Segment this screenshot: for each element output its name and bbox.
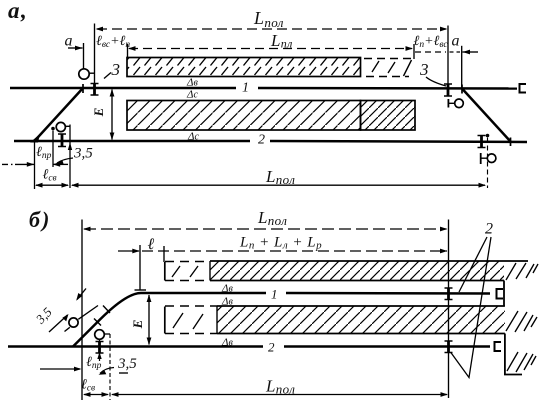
rotated dim 3,5 (fig b) — [32, 289, 98, 333]
notch vertical x=504 lower + bottom edge (fig b) — [505, 334, 522, 375]
svg-text:a: a — [452, 33, 460, 50]
loose hatch right of notch top (fig b) — [506, 263, 538, 280]
dim E (fig b) — [130, 295, 151, 346]
limit post dot (fig a right) — [486, 134, 490, 138]
svg-text:2: 2 — [258, 133, 265, 148]
middle band solid part (fig b) — [217, 306, 505, 334]
extension line x=110 (fig b) — [109, 334, 111, 400]
svg-text:ℓвс+ℓп: ℓвс+ℓп — [96, 34, 130, 50]
leader curve 3,5 (fig a) — [57, 158, 73, 163]
insulating joint track1 right (fig b) — [445, 288, 453, 301]
svg-text:2: 2 — [485, 221, 493, 238]
middle band dashed part (fig b) — [165, 306, 217, 334]
leader for 3 right — [426, 77, 446, 86]
insulating joint track2 right (fig a) — [478, 135, 486, 148]
track 1 (fig b) — [141, 292, 490, 295]
tick T2 on curve (fig b) — [103, 306, 110, 314]
svg-text:Δс: Δс — [187, 131, 199, 143]
dim l_pr left outside arrow — [2, 162, 34, 167]
dim L_pol bottom (fig a) — [71, 167, 486, 188]
tick T1 on diagonal (fig b) — [94, 319, 101, 326]
extension line x=461.7 (fig a) — [461, 46, 463, 88]
dim L_pl (fig a) — [128, 31, 413, 51]
label 2 with leaders (fig b) — [451, 221, 494, 378]
signal below track1 right (fig a) — [448, 99, 463, 108]
insulating joint track2 (fig b) — [96, 341, 104, 354]
leader for 3 left — [104, 73, 111, 79]
extension line x=448.5 (fig b) — [448, 220, 450, 399]
extension line x=94.5 (fig a) — [94, 24, 96, 84]
extension line x=127.5 up (fig a) — [127, 44, 129, 58]
svg-text:Δв: Δв — [221, 296, 233, 308]
up arrow on x=70 line (fig a) — [68, 143, 72, 151]
dim l_pr (fig b) — [40, 355, 102, 371]
top band solid part (fig b) — [210, 261, 528, 281]
svg-text:3,5: 3,5 — [117, 356, 137, 372]
extension line x=70 (fig a) — [69, 125, 71, 189]
svg-text:Δв: Δв — [221, 283, 233, 295]
extension from dot x=53 — [52, 131, 54, 168]
svg-text:E: E — [91, 107, 106, 117]
loose hatch right of middle band (fig b) — [506, 311, 537, 332]
track 2 end bracket (fig b) — [495, 342, 502, 351]
extension line x=34.5 (fig a) — [34, 141, 36, 189]
junction tick at (510.5,141.5) — [510, 138, 512, 147]
svg-text:ℓ: ℓ — [148, 236, 155, 253]
switch point arrowhead left (fig a) — [30, 134, 40, 143]
label 3,5 bottom (fig b) — [99, 356, 138, 375]
notch vertical x=504 upper (fig b) — [503, 281, 505, 307]
dim Lp+Ll+Lr (fig b) — [118, 235, 448, 254]
top band dashed part (fig b) — [165, 262, 210, 281]
insulating joint track1 right (fig a) — [444, 84, 452, 97]
junction tick at (462,88) — [461, 85, 463, 94]
dim line l_p+l_vc (fig a right) — [415, 51, 446, 53]
svg-text:Δс: Δс — [186, 89, 198, 101]
insulating joint track2 right (fig b) — [445, 341, 453, 354]
dim l_sv line (fig a) — [35, 183, 69, 188]
extension line x=487.5 (fig a right) — [487, 138, 489, 189]
signal left-bottom (fig a): circle+tick — [56, 122, 70, 131]
track 2 (fig b) — [8, 345, 490, 348]
track 1 (fig a) — [10, 87, 517, 90]
svg-text:a: a — [65, 33, 73, 50]
svg-text:3: 3 — [419, 60, 429, 79]
svg-text:3,5: 3,5 — [73, 146, 93, 162]
signal below track2 right (fig a) — [481, 153, 496, 164]
insulating joint track2 left (fig a) — [58, 134, 66, 148]
dim E (fig a) — [91, 89, 114, 140]
insulating joint track1 left (fig a) — [91, 83, 99, 96]
svg-text:1: 1 — [242, 81, 249, 96]
extension line x=414 (fig a) — [413, 44, 415, 59]
tick at bottom of x=140 — [135, 289, 147, 291]
signal left-top (fig a): circle+tick — [79, 69, 95, 79]
svg-text:E: E — [130, 319, 145, 329]
track 2 (fig a) — [14, 141, 527, 142]
extension line x=448 (fig a) — [447, 26, 449, 85]
up arrow below joint (fig b) — [97, 352, 101, 361]
turnout diagonal left (fig a) — [35, 88, 84, 141]
dim l_pr right outside arrow — [53, 162, 68, 167]
dim L_pol top (fig b) — [83, 208, 448, 231]
svg-text:1: 1 — [271, 287, 278, 302]
upper platform dashed extension (fig a) — [364, 59, 412, 77]
track 1 end bracket (fig b) — [497, 289, 504, 299]
dim a right: outside arrow — [450, 50, 479, 55]
extension tick x=164 (fig b) — [163, 246, 165, 262]
junction tick at (83,88) — [82, 84, 84, 93]
dim L_pol bottom (fig b) — [111, 377, 448, 397]
lower platform (fig a) — [127, 101, 415, 131]
svg-text:б): б) — [29, 207, 51, 232]
dim a left: outside arrow — [68, 46, 83, 51]
svg-text:3: 3 — [111, 60, 121, 79]
signal circle A on diagonal (fig b) — [69, 318, 78, 327]
svg-text:а,: а, — [8, 0, 28, 23]
extension line x=83.5 above circle (fig a) — [83, 43, 85, 69]
extension line x=140 (fig b) — [139, 245, 141, 290]
limit post dot (fig a left) — [51, 127, 55, 131]
svg-text:Δв: Δв — [186, 77, 198, 89]
dim l_sv line (fig b) — [83, 392, 109, 397]
extension line x=82 (fig b) — [81, 220, 83, 401]
turnout diagonal right (fig a) — [462, 89, 511, 142]
svg-text:2: 2 — [268, 340, 275, 355]
loose hatch right of notch bottom (fig b) — [507, 352, 536, 372]
upper platform solid (fig a) — [127, 58, 361, 77]
signal circle B (fig b) — [95, 330, 110, 342]
curve from track2 to track1 (fig b) — [73, 293, 141, 347]
track 1 end bracket (fig a) — [520, 84, 527, 93]
dim L_pol top (fig a) — [96, 8, 448, 31]
